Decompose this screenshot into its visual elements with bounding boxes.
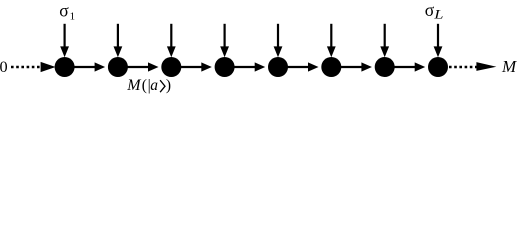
- label M(|a>) under second wire: [126, 77, 171, 94]
- wire node3-node4: [171, 62, 212, 71]
- wire node2-node3: [118, 62, 159, 71]
- wire node7-node8: [385, 62, 426, 71]
- input arrow 4: [220, 24, 229, 57]
- input arrow 1: [60, 24, 69, 57]
- svg-text:σ: σ: [59, 1, 69, 21]
- node 6: [321, 57, 341, 77]
- svg-text:M: M: [126, 77, 142, 94]
- node 8: [428, 57, 448, 77]
- arrowhead into node 1: [41, 62, 56, 72]
- input arrow 5: [274, 24, 283, 57]
- wire dotted right: [449, 66, 478, 69]
- svg-text:): ): [166, 77, 171, 94]
- input arrow 2: [114, 24, 123, 57]
- node 3: [161, 57, 181, 77]
- rangle glyph: [160, 80, 165, 92]
- node 5: [268, 57, 288, 77]
- svg-text:a: a: [150, 77, 158, 94]
- wire node6-node7: [331, 62, 372, 71]
- node 7: [375, 57, 395, 77]
- wire node5-node6: [278, 62, 319, 71]
- input arrow 7: [380, 24, 389, 57]
- wire node1-node2: [65, 62, 106, 71]
- svg-text:(: (: [142, 77, 147, 94]
- svg-text:M: M: [501, 57, 517, 76]
- svg-text:1: 1: [70, 10, 76, 22]
- node 1: [55, 57, 75, 77]
- label sigma_L: [425, 0, 444, 22]
- wire dotted left: [11, 66, 41, 69]
- wire node4-node5: [225, 62, 266, 71]
- svg-text:0: 0: [0, 57, 8, 76]
- label sigma_1: [59, 1, 75, 23]
- svg-text:σ: σ: [425, 0, 435, 20]
- svg-text:L: L: [433, 8, 443, 22]
- arrowhead to M: [476, 62, 496, 71]
- input arrow 6: [327, 24, 336, 57]
- node 4: [215, 57, 235, 77]
- input arrow 8: [434, 24, 443, 57]
- input arrow 3: [167, 24, 176, 57]
- node 2: [108, 57, 128, 77]
